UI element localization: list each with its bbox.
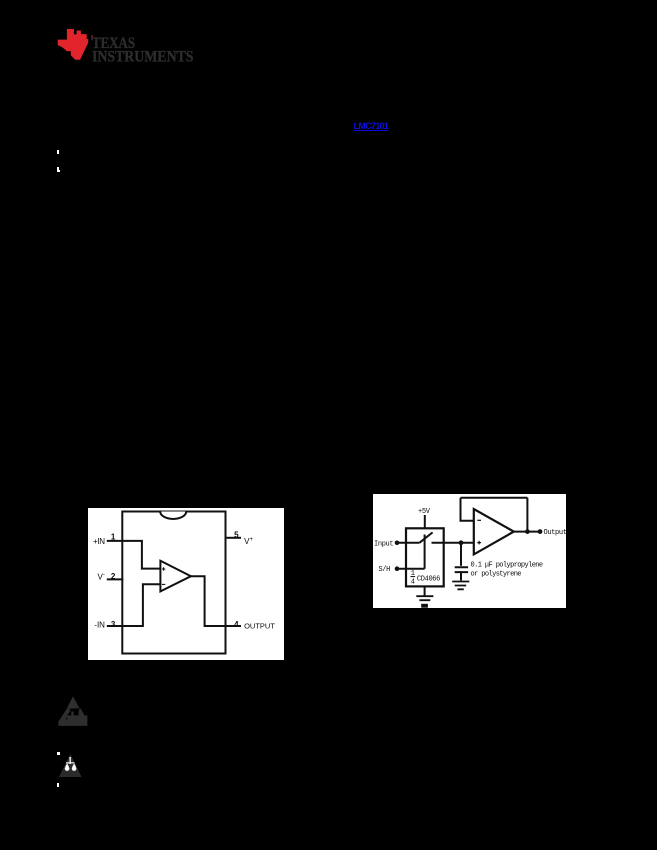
capacitor lead to ground <box>460 573 462 581</box>
svg-text:+IN: +IN <box>93 537 105 546</box>
package notch <box>160 512 186 520</box>
switch blade <box>419 532 432 542</box>
ground symbol under switch box <box>416 596 433 600</box>
ESD caution triangle icon <box>58 696 88 726</box>
node dot output terminal <box>538 529 543 534</box>
op-amp minus sign <box>477 519 481 521</box>
white mark d <box>57 783 59 787</box>
node dot input <box>395 541 400 546</box>
op-amp U1 <box>474 509 514 554</box>
wire S/H control <box>399 535 425 569</box>
wire op-amp output to pin4 <box>191 576 242 626</box>
white mark c <box>57 752 60 755</box>
op-amp A1 <box>160 561 191 592</box>
wire output junction to feedback <box>526 498 528 532</box>
TI logo wordmark <box>85 30 205 66</box>
figure 2: sample and hold application circuit <box>373 494 566 608</box>
wire input to switch <box>399 542 419 544</box>
scales caution triangle icon <box>59 754 82 777</box>
ground symbol under capacitor <box>452 582 469 590</box>
svg-text:Input: Input <box>374 541 393 549</box>
node dot output junction <box>525 529 530 534</box>
svg-text:INSTRUMENTS: INSTRUMENTS <box>92 48 194 65</box>
op-amp plus sign <box>162 567 165 570</box>
svg-text:3: 3 <box>111 620 116 629</box>
svg-text:V+: V+ <box>244 537 253 546</box>
op-amp plus sign <box>477 541 481 545</box>
svg-text:Output: Output <box>544 529 567 537</box>
svg-text:1: 1 <box>111 532 116 541</box>
op-amp minus sign <box>162 583 165 585</box>
svg-text:0.1 μF polypropylene: 0.1 μF polypropylene <box>471 561 543 569</box>
blue link LMC7101 <box>354 121 388 131</box>
svg-text:-IN: -IN <box>94 621 105 630</box>
svg-text:4: 4 <box>234 620 239 629</box>
wire op-amp output <box>514 531 540 533</box>
wire switch to hold node <box>432 542 474 544</box>
svg-text:2: 2 <box>111 572 116 581</box>
white mark b <box>57 167 59 172</box>
node dot S/H <box>395 566 400 571</box>
svg-text:CD4066: CD4066 <box>417 575 440 583</box>
svg-text:4: 4 <box>411 578 415 586</box>
IC package outline U1 <box>122 512 225 654</box>
wire pin5 V+ <box>226 537 242 539</box>
svg-text:5: 5 <box>234 531 239 540</box>
svg-text:OUTPUT: OUTPUT <box>244 622 275 631</box>
feedback wire top <box>461 497 528 499</box>
svg-text:or polystyrene: or polystyrene <box>471 570 522 578</box>
white mark a <box>57 150 59 154</box>
figure 1: connection diagram <box>88 508 284 660</box>
wire pin3 -IN to op-amp - input <box>107 584 161 626</box>
wire pin1 +IN to op-amp + input <box>107 541 161 569</box>
svg-text:+5V: +5V <box>418 508 431 516</box>
wire pin2 V- <box>107 578 124 580</box>
capacitor C1 plates <box>455 567 468 572</box>
capacitor C1 lead top <box>460 543 462 566</box>
wire +5V supply lead <box>424 515 426 529</box>
wire feedback to op-amp inverting input <box>461 498 474 521</box>
wire switch box to ground <box>424 586 426 595</box>
switch box CD4066 <box>406 528 444 586</box>
svg-text:V-: V- <box>98 573 105 582</box>
TI logo red Texas shape <box>55 25 95 65</box>
fraction bar for 1/4 <box>410 576 415 578</box>
node dot hold node <box>459 540 464 545</box>
svg-text:S/H: S/H <box>378 566 390 574</box>
